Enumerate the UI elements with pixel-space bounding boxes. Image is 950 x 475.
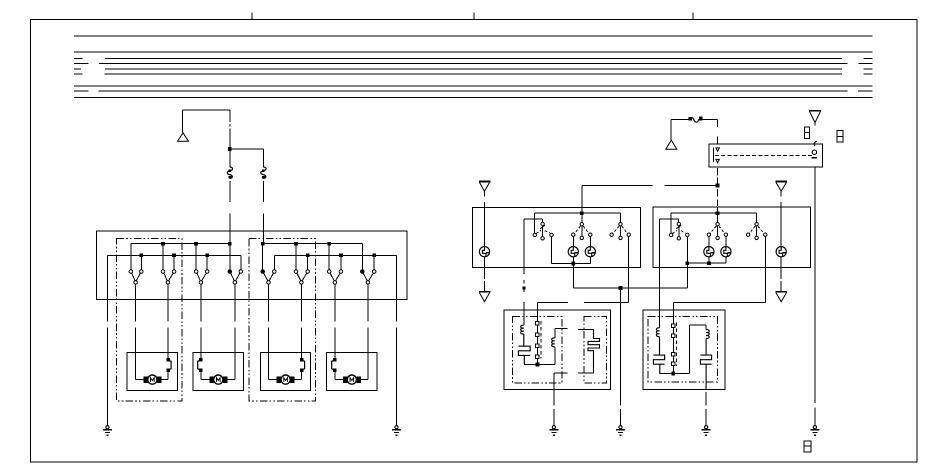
switch S10: [572, 213, 592, 239]
bulb L1: [479, 207, 489, 267]
window motor M2: [193, 352, 243, 390]
wire U2 left drop: [523, 219, 525, 267]
wire U2 top: [535, 211, 621, 215]
switch S12: [669, 213, 689, 263]
wire W1: [573, 263, 687, 290]
wire U3 bottom: [685, 261, 726, 265]
switch S2: [161, 244, 176, 353]
wire W1 ground drop: [620, 288, 622, 426]
door lock unit U4: [504, 310, 610, 390]
switch S5: [261, 244, 276, 353]
wire W: [582, 185, 718, 187]
switch S6: [294, 244, 309, 353]
unit boundary D5 dash-dot: [648, 317, 717, 382]
bulb L2: [568, 236, 578, 263]
master switch box U1: [96, 231, 407, 299]
circuit breaker F2: [261, 167, 266, 179]
wire U3 top: [671, 211, 757, 215]
window motor M1: [127, 352, 177, 390]
linkage dashed: [676, 323, 678, 367]
wire harness line 2: [74, 51, 873, 53]
connector arrow A1: [178, 110, 189, 141]
wire U5 bottom: [660, 372, 690, 376]
ground G5: [702, 426, 711, 436]
wire right link: [673, 302, 765, 310]
relay pin 1 terminal: [713, 148, 719, 163]
circuit breaker F3: [688, 117, 702, 123]
wire harness line 6: [74, 73, 873, 75]
resistor element X7: [653, 337, 664, 374]
unit box D2 dash-dot: [249, 239, 315, 401]
wire U5 to ground: [705, 392, 707, 426]
wire dashed relay drop: [717, 168, 719, 213]
bulb L3: [585, 236, 595, 263]
connector C2: [837, 131, 843, 143]
ground G2: [392, 426, 401, 436]
switch S11: [610, 213, 631, 239]
wire U3 second: [660, 218, 679, 220]
wire S11 drop: [628, 237, 630, 303]
wire U4 bottom: [524, 363, 555, 367]
bus wire B4: [274, 253, 396, 257]
node junction: [228, 147, 232, 151]
lock switch contacts X3: [536, 302, 539, 364]
bus wire B2: [107, 253, 240, 257]
unit boundary D4 dash-dot: [584, 316, 606, 383]
wire harness line 7: [74, 85, 873, 87]
knob switch X9: [690, 325, 712, 390]
node junction: [716, 184, 720, 188]
connector C1: [804, 127, 809, 139]
window switch box U3: [653, 207, 811, 267]
switch S3: [194, 244, 209, 353]
wire ground right: [396, 255, 398, 425]
relay box K1: [709, 144, 822, 167]
bulb L6: [776, 207, 786, 267]
unit box D1 dash-dot: [117, 239, 183, 401]
connector arrow A2: [666, 119, 677, 149]
wire vertical A: [229, 110, 231, 167]
knob switch X5: [578, 329, 599, 373]
connector arrow A3: [809, 111, 821, 126]
ground G3: [549, 426, 558, 436]
wire harness line 8: [74, 90, 873, 92]
wire: [262, 181, 264, 202]
wire vertical B: [262, 149, 264, 167]
window switch box U2: [473, 207, 641, 267]
connector arrow A7: [776, 268, 787, 302]
wire harness line 3: [74, 57, 873, 59]
wire S14 drop: [764, 237, 766, 303]
relay internal link: [715, 154, 814, 156]
solenoid coil X4: [552, 329, 568, 365]
connector arrow A6: [776, 182, 787, 208]
ground G1: [103, 426, 112, 436]
wire: [229, 181, 231, 202]
resistor element X2: [518, 334, 530, 364]
wire U3 left drop: [659, 219, 661, 268]
wire U4 to ground: [553, 390, 555, 426]
wire stub pair P3: [554, 373, 568, 389]
door lock unit U5: [643, 310, 725, 389]
connector arrow A4: [479, 182, 490, 208]
wire: [229, 213, 231, 243]
wire relay to ground: [814, 167, 816, 426]
wire: [262, 213, 264, 243]
connector arrow A5: [479, 268, 490, 302]
window motor M3: [261, 352, 311, 390]
wire U2 bottom: [552, 262, 591, 266]
unit boundary D3 dash-dot: [513, 316, 562, 383]
relay pin 2 terminal: [812, 141, 818, 158]
bus wire B3: [261, 242, 363, 246]
bulb L5: [721, 236, 731, 263]
wire U2 second: [524, 218, 543, 220]
switch S7: [327, 244, 342, 353]
wire W drop: [581, 186, 583, 214]
bulb L4: [704, 236, 714, 263]
connector C3: [804, 441, 811, 452]
ground G6: [810, 426, 819, 436]
switch S14: [746, 213, 767, 239]
wire harness line 1: [74, 35, 873, 37]
wire harness line 5: [74, 68, 873, 70]
switch S4: [228, 244, 243, 353]
window motor M4: [327, 352, 378, 390]
wire stub pair P1: [538, 302, 629, 310]
wire ground left: [106, 255, 108, 425]
wire branch: [230, 148, 263, 150]
wire feed right: [671, 118, 718, 120]
wire feed top: [182, 109, 230, 111]
switch S13: [707, 213, 727, 239]
linkage dashed: [540, 321, 542, 359]
switch S8: [361, 244, 376, 353]
solenoid coil X1: [521, 310, 524, 334]
ground G4: [616, 426, 625, 436]
solenoid coil X6: [656, 268, 659, 337]
circuit breaker F1: [227, 167, 232, 179]
wire dashed to relay: [717, 119, 719, 144]
switch S9: [533, 213, 553, 263]
wire harness line 9: [74, 97, 873, 99]
lock switch contacts X8: [672, 310, 675, 374]
wire dashed U2 to U4: [522, 268, 525, 311]
bus wire B1: [131, 242, 232, 246]
wire harness line 4: [74, 62, 873, 64]
switch S1: [129, 244, 143, 353]
